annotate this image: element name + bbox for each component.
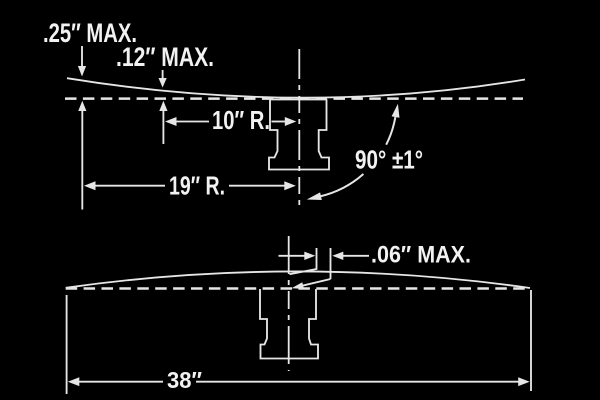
dimension 38in: right segment <box>196 381 519 383</box>
90 degree arc upper arrowhead <box>392 104 400 118</box>
dimension 19in R: left arrow <box>84 181 96 190</box>
top datum dashed line <box>65 97 523 100</box>
leader arrow down for .12 MAX <box>159 70 167 88</box>
runout line B slant <box>296 279 331 287</box>
dimension .06in: right-pointing arrow <box>304 252 315 260</box>
90 degree arc lower arrowhead <box>307 192 322 200</box>
dimension 38in: left segment <box>78 381 163 383</box>
dimension 38in: left arrow <box>68 377 80 386</box>
top platter dished curve <box>67 78 525 97</box>
38in left extension line <box>66 295 68 394</box>
svg-text:38″: 38″ <box>167 367 202 393</box>
dimension 19in R: left segment <box>95 185 166 187</box>
top hub body outline <box>269 100 329 170</box>
bottom hub center line (dash-dot) <box>288 236 290 371</box>
bottom hub body outline <box>260 289 318 359</box>
90 degree arc lower segment <box>320 174 364 197</box>
dimension 10in R: right segment <box>272 121 287 123</box>
svg-text:.06″ MAX.: .06″ MAX. <box>371 242 471 269</box>
svg-text:.12″ MAX.: .12″ MAX. <box>116 42 214 72</box>
runout line A (vertical + slant to axis) <box>290 248 317 274</box>
dimension 10in R: left arrow <box>165 117 177 126</box>
leader arrow down for .25 MAX <box>78 46 86 77</box>
dimension .06in: left-pointing arrow <box>332 252 343 260</box>
svg-text:90° ±1°: 90° ±1° <box>355 145 423 175</box>
dimension .06in: left segment crossing axis <box>279 255 306 257</box>
bottom platter crowned curve <box>66 271 530 288</box>
dimension 38in: right arrow <box>518 377 530 386</box>
extension line with up arrow at 10in R <box>159 101 167 144</box>
bottom datum dashed line <box>66 287 530 290</box>
svg-text:19″ R.: 19″ R. <box>169 173 225 201</box>
dimension 19in R: right segment <box>229 185 286 187</box>
dimension 10in R: left segment <box>176 121 210 123</box>
38in right extension line <box>530 290 532 391</box>
svg-text:10″ R.: 10″ R. <box>212 107 270 135</box>
left extension line with up arrow (19in R edge) <box>78 101 86 210</box>
top hub top edge <box>270 99 327 101</box>
dimension 10in R: right arrow <box>285 117 297 126</box>
runout line B vertical <box>330 248 332 279</box>
top hub center line (dash-dot) <box>298 49 300 207</box>
runout line B arrowhead <box>292 282 304 289</box>
90 degree arc upper segment <box>386 117 395 145</box>
dimension .06in: right segment <box>343 255 369 257</box>
dimension 19in R: right arrow <box>284 181 296 190</box>
